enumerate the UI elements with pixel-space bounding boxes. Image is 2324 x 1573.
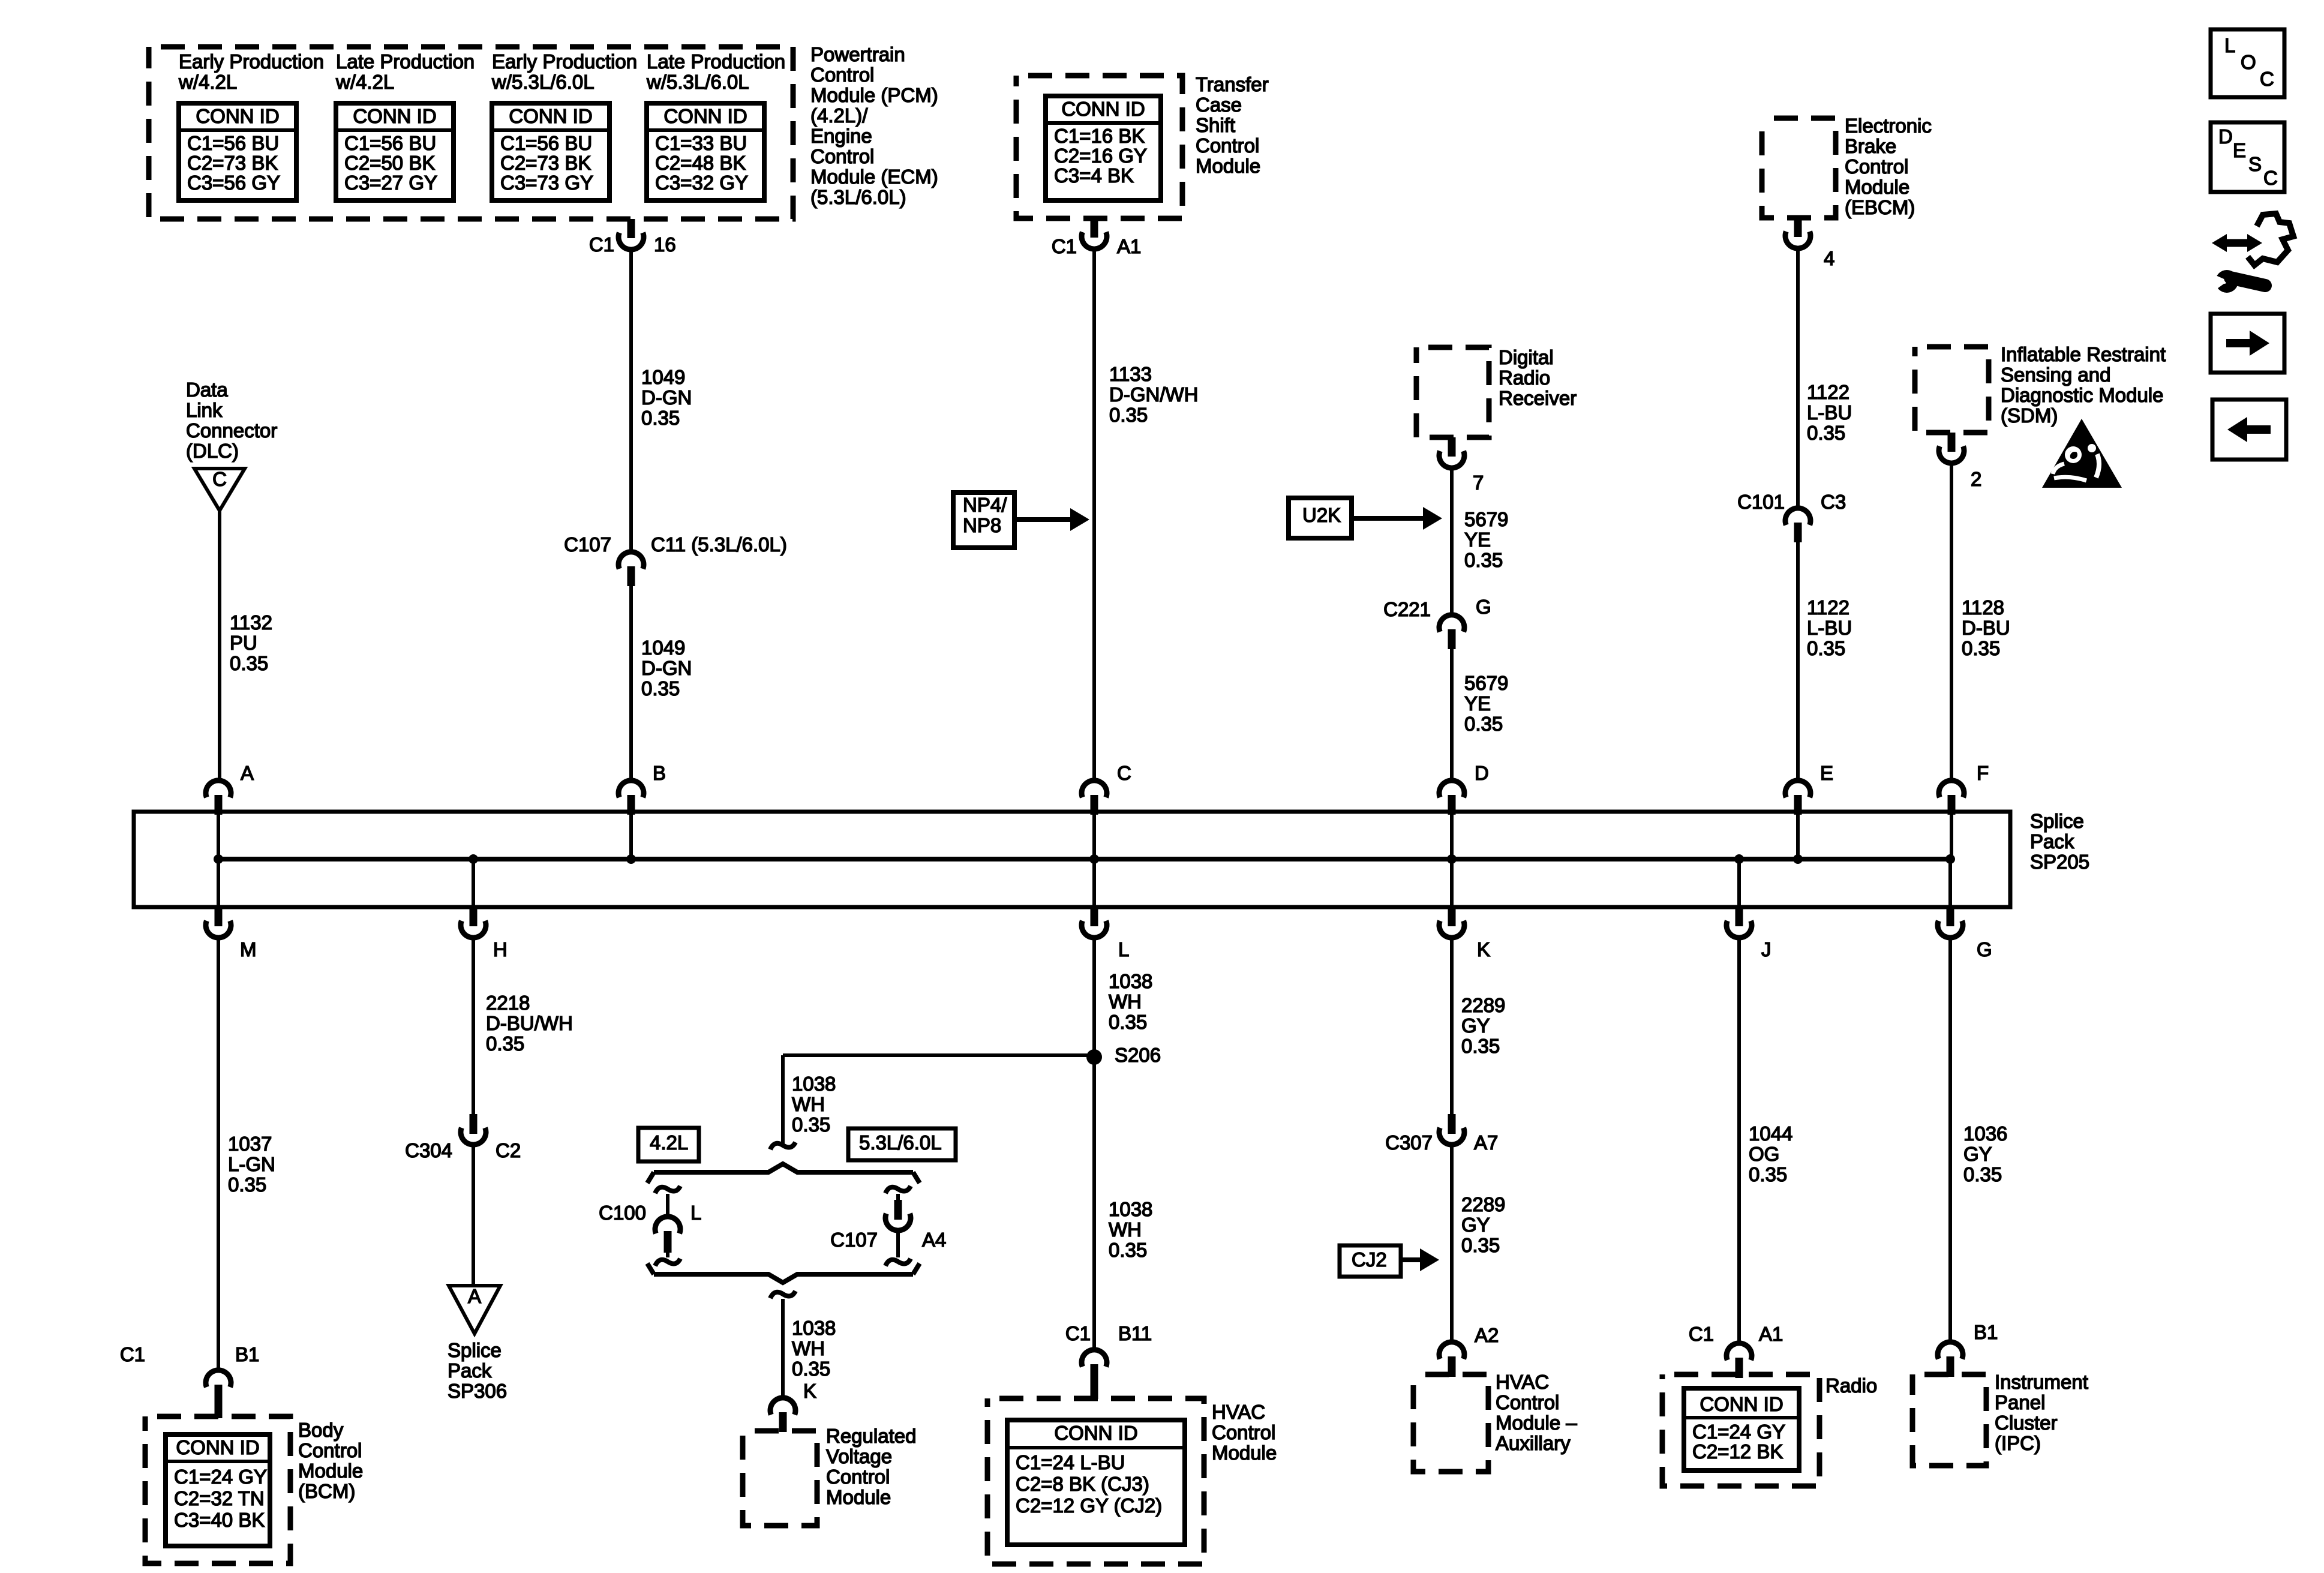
svg-text:D: D <box>1475 762 1489 784</box>
svg-text:WH: WH <box>1109 990 1142 1013</box>
splice connector H (to SP306) <box>472 859 475 907</box>
svg-text:C2=73 BK: C2=73 BK <box>187 152 278 174</box>
wire 1049 D-GN 0.35 (PCM C1-16 to C107) <box>629 250 633 552</box>
svg-text:0.35: 0.35 <box>1464 549 1503 571</box>
svg-text:Late Production: Late Production <box>336 50 475 73</box>
svg-text:CONN ID: CONN ID <box>176 1436 259 1458</box>
wire 1122 L-BU 0.35 (C101 to splice E) <box>1796 542 1800 779</box>
svg-text:Auxillary: Auxillary <box>1496 1432 1571 1454</box>
svg-text:S206: S206 <box>1115 1044 1161 1066</box>
svg-text:Control: Control <box>1845 155 1908 178</box>
svg-text:0.35: 0.35 <box>1109 1011 1147 1033</box>
connector pin A2 at HVAC aux <box>1439 1342 1464 1359</box>
svg-text:0.35: 0.35 <box>1464 713 1503 735</box>
svg-text:Control: Control <box>1496 1391 1559 1413</box>
svg-text:C3: C3 <box>1821 491 1846 513</box>
svg-text:Diagnostic Module: Diagnostic Module <box>2001 384 2163 406</box>
svg-text:A1: A1 <box>1117 235 1141 257</box>
wire 1128 D-BU 0.35 (SDM to splice F) <box>1950 463 1953 779</box>
inline connector C221 / pin G <box>1439 615 1464 632</box>
svg-text:Late Production: Late Production <box>647 50 785 73</box>
svg-text:C101: C101 <box>1737 491 1785 513</box>
svg-text:C304: C304 <box>405 1139 452 1161</box>
svg-text:O: O <box>2241 51 2256 73</box>
svg-text:L-GN: L-GN <box>228 1153 275 1175</box>
svg-text:A: A <box>468 1285 481 1307</box>
option box CJ2 with arrow <box>1340 1245 1401 1277</box>
splice connector D (from DRR) <box>1439 781 1464 797</box>
svg-text:Transfer: Transfer <box>1196 73 1269 95</box>
svg-text:CONN ID: CONN ID <box>1054 1422 1137 1444</box>
svg-text:Module: Module <box>1212 1442 1277 1464</box>
branch connector C107 pin A4 (5.3L/6.0L) <box>885 1186 911 1193</box>
svg-text:1036: 1036 <box>1963 1122 2007 1145</box>
svg-text:(4.2L)/: (4.2L)/ <box>810 104 868 127</box>
svg-text:A7: A7 <box>1474 1131 1498 1154</box>
svg-text:CONN ID: CONN ID <box>353 105 436 127</box>
svg-text:Voltage: Voltage <box>826 1445 892 1467</box>
svg-text:Engine: Engine <box>810 125 872 147</box>
svg-text:0.35: 0.35 <box>486 1032 524 1055</box>
junction node D on bus <box>1447 854 1457 864</box>
legend diagnostic icon (arrow, harness, wrench) <box>2212 214 2293 293</box>
svg-text:HVAC: HVAC <box>1496 1371 1549 1393</box>
svg-text:5679: 5679 <box>1464 672 1508 694</box>
connector pin B1 at IPC <box>1938 1342 1963 1359</box>
wire 5679 YE 0.35 (DRR to C221) <box>1450 468 1454 615</box>
svg-text:L: L <box>690 1202 701 1224</box>
svg-text:Sensing and: Sensing and <box>2001 364 2110 386</box>
Body Control Module dashed box <box>145 1416 290 1563</box>
svg-text:D: D <box>2218 125 2233 148</box>
svg-text:C3=40 BK: C3=40 BK <box>174 1509 265 1531</box>
svg-text:YE: YE <box>1464 529 1491 551</box>
svg-text:2289: 2289 <box>1461 994 1505 1016</box>
svg-text:0.35: 0.35 <box>1962 637 2000 659</box>
svg-text:2: 2 <box>1971 468 1981 490</box>
svg-text:5.3L/6.0L: 5.3L/6.0L <box>859 1131 942 1154</box>
svg-text:1038: 1038 <box>1109 970 1152 992</box>
svg-text:C3=56 GY: C3=56 GY <box>187 172 280 194</box>
svg-text:0.35: 0.35 <box>641 407 680 429</box>
splice connector A (from DLC) <box>206 781 231 797</box>
svg-text:Electronic: Electronic <box>1845 115 1932 137</box>
legend box DESC <box>2211 122 2284 192</box>
HVAC connector table C1=24 L-BU / C2=8 BK (CJ3) / C2=12 GY (CJ2) <box>1007 1420 1185 1545</box>
svg-text:Module: Module <box>1845 176 1909 198</box>
svg-text:A1: A1 <box>1759 1323 1783 1345</box>
svg-text:L-BU: L-BU <box>1807 401 1852 424</box>
svg-text:Case: Case <box>1196 94 1242 116</box>
svg-text:NP4/: NP4/ <box>963 494 1007 516</box>
svg-text:C2=73 BK: C2=73 BK <box>500 152 591 174</box>
svg-text:C1=24 GY: C1=24 GY <box>174 1466 267 1488</box>
svg-text:C: C <box>2263 167 2278 189</box>
svg-text:Control: Control <box>1212 1421 1275 1443</box>
wire 1037 L-GN 0.35 (splice M to BCM) <box>217 938 220 1370</box>
svg-text:C1=56 BU: C1=56 BU <box>344 132 436 154</box>
svg-text:SP205: SP205 <box>2030 851 2089 873</box>
svg-text:Radio: Radio <box>1825 1374 1877 1397</box>
svg-text:C1=56 BU: C1=56 BU <box>500 132 592 154</box>
svg-text:Link: Link <box>186 399 223 421</box>
splice connector B (from PCM) <box>618 781 644 797</box>
svg-text:S: S <box>2248 153 2262 175</box>
svg-text:C1: C1 <box>1052 235 1077 257</box>
svg-text:4: 4 <box>1824 247 1834 269</box>
svg-text:Control: Control <box>298 1439 362 1461</box>
svg-text:Connector: Connector <box>186 419 277 442</box>
Radio dashed box <box>1662 1374 1819 1486</box>
svg-text:M: M <box>240 938 257 960</box>
svg-text:GY: GY <box>1963 1143 1992 1165</box>
svg-text:5679: 5679 <box>1464 508 1508 530</box>
wire 1036 GY 0.35 (splice G to IPC) <box>1948 938 1952 1342</box>
splice connector G (to IPC) <box>1948 859 1952 907</box>
Transfer Case Shift Control Module dashed box <box>1016 76 1182 218</box>
svg-text:0.35: 0.35 <box>641 677 680 700</box>
svg-text:GY: GY <box>1461 1214 1490 1236</box>
svg-text:C11 (5.3L/6.0L): C11 (5.3L/6.0L) <box>651 533 787 556</box>
connector C1 pin B1 at BCM <box>206 1370 231 1387</box>
svg-text:CJ2: CJ2 <box>1352 1248 1387 1271</box>
svg-text:C1: C1 <box>120 1343 145 1365</box>
connector C1 pin A1 at TCSCM <box>1091 218 1098 238</box>
svg-text:L: L <box>2224 34 2235 56</box>
svg-text:Powertrain: Powertrain <box>810 43 905 65</box>
splice pack SP306 triangle A <box>449 1286 500 1334</box>
wire break hook above option brace <box>770 1142 795 1149</box>
svg-text:A: A <box>241 762 254 784</box>
PCM connector table C1=33 BU / C2=48 BK / C3=32 GY <box>647 103 764 200</box>
svg-text:Body: Body <box>298 1419 344 1441</box>
svg-text:C2: C2 <box>496 1139 521 1161</box>
svg-text:SP306: SP306 <box>448 1380 507 1402</box>
wire 1038 WH 0.35 branch (S206 to option braces) <box>783 1053 1096 1057</box>
svg-text:E: E <box>2233 139 2246 161</box>
svg-text:B: B <box>653 762 666 784</box>
svg-text:E: E <box>1820 762 1833 784</box>
svg-text:Panel: Panel <box>1995 1391 2045 1413</box>
connector C1 pin A1 at Radio <box>1727 1343 1752 1360</box>
svg-text:(EBCM): (EBCM) <box>1845 196 1915 218</box>
svg-text:GY: GY <box>1461 1014 1490 1037</box>
svg-text:(IPC): (IPC) <box>1995 1432 2041 1454</box>
svg-text:1044: 1044 <box>1749 1122 1792 1145</box>
wire 2289 GY 0.35 (C307 to HVAC aux A2) <box>1450 1145 1454 1342</box>
svg-text:Splice: Splice <box>2030 810 2084 832</box>
junction node C on bus <box>1089 854 1099 864</box>
svg-text:Control: Control <box>1196 134 1259 157</box>
svg-text:2218: 2218 <box>486 992 530 1014</box>
svg-text:L: L <box>1118 938 1129 960</box>
splice connector L (to HVAC) <box>1092 859 1096 907</box>
svg-text:CONN ID: CONN ID <box>1061 98 1145 120</box>
svg-text:1122: 1122 <box>1807 381 1849 403</box>
PCM connector table C1=56 BU / C2=73 BK / C3=73 GY <box>492 103 609 200</box>
svg-text:1132: 1132 <box>230 611 272 634</box>
PCM connector table C1=56 BU / C2=50 BK / C3=27 GY <box>336 103 454 200</box>
svg-text:Control: Control <box>810 145 874 167</box>
splice connector C (from TCSCM) <box>1082 781 1107 797</box>
splice S206 <box>1086 1049 1102 1065</box>
junction node B on bus <box>626 854 636 864</box>
connector pin 2 at SDM <box>1948 433 1956 452</box>
svg-text:C3=27 GY: C3=27 GY <box>344 172 437 194</box>
svg-text:0.35: 0.35 <box>1807 637 1845 659</box>
svg-text:C2=50 BK: C2=50 BK <box>344 152 435 174</box>
svg-text:Radio: Radio <box>1499 367 1550 389</box>
svg-text:C1=24 GY: C1=24 GY <box>1692 1421 1785 1443</box>
svg-text:C2=48 BK: C2=48 BK <box>655 152 746 174</box>
svg-text:PU: PU <box>230 632 257 654</box>
svg-text:Data: Data <box>186 379 228 401</box>
svg-text:Module: Module <box>298 1460 363 1482</box>
svg-text:1049: 1049 <box>641 637 685 659</box>
connector pin 4 at EBCM <box>1794 218 1802 237</box>
svg-text:C1: C1 <box>589 233 614 256</box>
svg-text:1133: 1133 <box>1109 363 1152 385</box>
wire 1133 D-GN/WH 0.35 (TCSCM to splice C) <box>1092 249 1096 779</box>
svg-text:C307: C307 <box>1385 1131 1433 1154</box>
svg-text:H: H <box>493 938 508 960</box>
svg-text:C2=12 BK: C2=12 BK <box>1692 1440 1783 1463</box>
Electronic Brake Control Module dashed box <box>1762 118 1836 218</box>
svg-text:(DLC): (DLC) <box>186 440 239 462</box>
svg-text:D-GN: D-GN <box>641 657 692 679</box>
svg-text:1038: 1038 <box>792 1073 836 1095</box>
svg-text:Shift: Shift <box>1196 114 1235 136</box>
wire 1038 WH 0.35 (splice L to S206) <box>1092 938 1096 1350</box>
svg-text:w/4.2L: w/4.2L <box>335 71 394 93</box>
svg-text:CONN ID: CONN ID <box>196 105 279 127</box>
svg-text:CONN ID: CONN ID <box>1700 1393 1783 1415</box>
TCSCM connector table C1=16 BK / C2=16 GY / C3=4 BK <box>1046 96 1161 200</box>
svg-text:C1=56 BU: C1=56 BU <box>187 132 279 154</box>
svg-text:0.35: 0.35 <box>1461 1234 1500 1256</box>
wire 5679 YE 0.35 (C221 to splice D) <box>1450 649 1454 779</box>
inline connector C307 / pin A7 <box>1448 1114 1456 1134</box>
svg-text:Brake: Brake <box>1845 135 1896 157</box>
splice connector J (to Radio) <box>1737 859 1741 907</box>
svg-text:Pack: Pack <box>448 1359 492 1382</box>
splice connector E (from EBCM) <box>1785 781 1810 797</box>
wire 2218 D-BU/WH 0.35 (splice H to C304) <box>472 938 475 1114</box>
wire 1132 PU 0.35 (DLC to splice A) <box>218 511 221 781</box>
svg-text:0.35: 0.35 <box>792 1358 830 1380</box>
DLC off-page triangle C <box>194 469 245 511</box>
svg-text:Module (ECM): Module (ECM) <box>810 166 938 188</box>
HVAC Control Module - Auxillary dashed box <box>1413 1374 1488 1472</box>
junction node E on bus <box>1793 854 1803 864</box>
inline connector C101 / pin C3 <box>1785 508 1810 525</box>
Instrument Panel Cluster dashed box <box>1912 1374 1986 1466</box>
svg-text:C1: C1 <box>1689 1323 1714 1345</box>
svg-text:w/5.3L/6.0L: w/5.3L/6.0L <box>646 71 749 93</box>
svg-text:K: K <box>1477 938 1490 960</box>
wire (C304 to splice pack SP306) <box>472 1145 475 1286</box>
svg-text:Receiver: Receiver <box>1499 387 1577 409</box>
connector pin K at RVCM <box>770 1398 795 1415</box>
svg-text:C2=16 GY: C2=16 GY <box>1054 145 1147 167</box>
svg-text:16: 16 <box>654 233 676 256</box>
svg-text:4.2L: 4.2L <box>650 1131 688 1154</box>
svg-text:A2: A2 <box>1475 1324 1499 1346</box>
svg-text:Regulated: Regulated <box>826 1425 916 1447</box>
svg-text:1122: 1122 <box>1807 596 1849 619</box>
engine option box 4.2L <box>638 1128 699 1161</box>
svg-text:WH: WH <box>792 1093 825 1115</box>
option brace top <box>647 1164 920 1183</box>
svg-text:CONN ID: CONN ID <box>509 105 592 127</box>
wire 2289 GY 0.35 (splice K to C307) <box>1450 938 1454 1114</box>
connector pin 7 at Digital Radio Receiver <box>1448 437 1456 457</box>
svg-text:B1: B1 <box>1974 1321 1998 1343</box>
svg-text:1038: 1038 <box>792 1317 836 1339</box>
svg-text:D-GN/WH: D-GN/WH <box>1109 383 1198 406</box>
svg-text:2289: 2289 <box>1461 1193 1505 1215</box>
connector C1 pin 16 at PCM <box>627 219 635 238</box>
svg-text:C1=33 BU: C1=33 BU <box>655 132 747 154</box>
Digital Radio Receiver dashed box <box>1416 347 1489 437</box>
svg-text:0.35: 0.35 <box>1109 1239 1147 1261</box>
svg-text:(SDM): (SDM) <box>2001 404 2058 427</box>
svg-text:Early Production: Early Production <box>492 50 637 73</box>
svg-text:Module: Module <box>826 1486 891 1508</box>
junction node F/G on bus <box>1945 854 1955 864</box>
svg-text:C: C <box>1117 762 1131 784</box>
BCM connector table C1=24 GY / C2=32 TN / C3=40 BK <box>166 1434 270 1546</box>
svg-text:C1=16 BK: C1=16 BK <box>1054 125 1145 147</box>
svg-text:WH: WH <box>1109 1218 1142 1241</box>
svg-text:C: C <box>212 468 227 490</box>
svg-text:C221: C221 <box>1383 598 1431 620</box>
svg-text:7: 7 <box>1473 472 1484 494</box>
wire 1038 WH 0.35 (brace to RVCM pin K) <box>781 1299 785 1398</box>
svg-text:Splice: Splice <box>448 1339 502 1361</box>
svg-text:B11: B11 <box>1118 1322 1152 1344</box>
svg-text:D-BU: D-BU <box>1962 617 2010 639</box>
svg-text:1037: 1037 <box>228 1133 272 1155</box>
svg-text:B1: B1 <box>235 1343 259 1365</box>
engine option box 5.3L/6.0L <box>848 1128 956 1160</box>
wire 1044 OG 0.35 (splice J to Radio) <box>1737 938 1741 1343</box>
svg-text:HVAC: HVAC <box>1212 1401 1265 1423</box>
svg-text:(BCM): (BCM) <box>298 1480 355 1502</box>
svg-text:1128: 1128 <box>1962 596 2004 619</box>
svg-text:K: K <box>803 1380 816 1402</box>
svg-text:C100: C100 <box>599 1202 646 1224</box>
svg-text:Module (PCM): Module (PCM) <box>810 84 938 106</box>
option brace bottom <box>647 1263 920 1283</box>
svg-text:C2=32 TN: C2=32 TN <box>174 1487 265 1509</box>
legend box left arrow <box>2212 400 2286 460</box>
Radio connector table C1=24 GY / C2=12 BK <box>1684 1388 1799 1470</box>
svg-text:L-BU: L-BU <box>1807 617 1852 639</box>
Regulated Voltage Control Module dashed box <box>743 1431 817 1526</box>
svg-text:0.35: 0.35 <box>1109 404 1148 426</box>
legend box LOC <box>2211 29 2284 97</box>
svg-text:WH: WH <box>792 1337 825 1359</box>
svg-text:C1: C1 <box>1065 1322 1091 1344</box>
svg-text:C: C <box>2260 68 2274 90</box>
svg-text:G: G <box>1977 938 1992 960</box>
svg-text:(5.3L/6.0L): (5.3L/6.0L) <box>810 186 906 208</box>
splice pack internal bus wire <box>218 857 1950 861</box>
option box U2K with arrow <box>1289 498 1352 538</box>
svg-text:Early Production: Early Production <box>179 50 324 73</box>
inline connector C107 / C11 (5.3L/6.0L) <box>618 552 644 569</box>
svg-text:w/5.3L/6.0L: w/5.3L/6.0L <box>491 71 594 93</box>
svg-text:C3=73 GY: C3=73 GY <box>500 172 593 194</box>
svg-text:C1=24 L-BU: C1=24 L-BU <box>1016 1451 1125 1473</box>
splice pack SP205 box <box>134 812 2010 907</box>
wire break hook below option brace <box>770 1291 795 1298</box>
svg-text:C3=32 GY: C3=32 GY <box>655 172 748 194</box>
svg-text:CONN ID: CONN ID <box>663 105 747 127</box>
connector C1 pin B11 at HVAC <box>1082 1350 1107 1367</box>
svg-text:YE: YE <box>1464 692 1491 715</box>
svg-text:Digital: Digital <box>1499 346 1554 368</box>
svg-text:G: G <box>1476 596 1491 618</box>
svg-text:0.35: 0.35 <box>1461 1035 1500 1057</box>
svg-text:D-GN: D-GN <box>641 386 692 409</box>
svg-text:0.35: 0.35 <box>230 652 268 674</box>
svg-text:w/4.2L: w/4.2L <box>178 71 237 93</box>
svg-text:J: J <box>1761 938 1771 960</box>
svg-text:Control: Control <box>826 1466 890 1488</box>
svg-text:C107: C107 <box>830 1229 878 1251</box>
svg-text:C2=8 BK (CJ3): C2=8 BK (CJ3) <box>1016 1473 1149 1495</box>
branch connector C100 pin L (4.2L) <box>655 1186 680 1193</box>
svg-text:C3=4 BK: C3=4 BK <box>1054 164 1134 187</box>
svg-text:1038: 1038 <box>1109 1198 1152 1220</box>
svg-text:1049: 1049 <box>641 366 685 388</box>
wire 1122 L-BU 0.35 (EBCM to C101) <box>1796 248 1800 508</box>
svg-text:A4: A4 <box>922 1229 946 1251</box>
svg-text:OG: OG <box>1749 1143 1779 1165</box>
legend box right arrow <box>2211 314 2284 373</box>
svg-text:Module –: Module – <box>1496 1412 1577 1434</box>
svg-text:D-BU/WH: D-BU/WH <box>486 1012 573 1034</box>
svg-text:Module: Module <box>1196 155 1260 177</box>
junction node A on bus <box>214 854 223 864</box>
wire 1049 D-GN 0.35 (C107 to splice B) <box>629 586 633 779</box>
SRS airbag warning triangle icon <box>2042 419 2122 488</box>
svg-text:0.35: 0.35 <box>792 1113 830 1136</box>
svg-text:F: F <box>1977 762 1989 784</box>
svg-text:Inflatable Restraint: Inflatable Restraint <box>2001 343 2166 365</box>
svg-text:C107: C107 <box>564 533 611 556</box>
HVAC Control Module dashed box <box>987 1398 1204 1564</box>
option box NP4/NP8 with arrow <box>953 493 1014 548</box>
svg-text:U2K: U2K <box>1302 504 1341 526</box>
svg-text:Cluster: Cluster <box>1995 1412 2058 1434</box>
svg-text:0.35: 0.35 <box>1807 422 1845 444</box>
svg-text:0.35: 0.35 <box>228 1173 266 1196</box>
splice connector K (to HVAC aux) <box>1450 859 1454 907</box>
svg-text:0.35: 0.35 <box>1749 1163 1787 1185</box>
svg-text:NP8: NP8 <box>963 514 1001 536</box>
svg-text:C2=12 GY (CJ2): C2=12 GY (CJ2) <box>1016 1494 1162 1517</box>
svg-text:Pack: Pack <box>2030 830 2074 852</box>
Powertrain/Engine Control Module (PCM/ECM) dashed box <box>149 47 793 219</box>
svg-text:Control: Control <box>810 64 874 86</box>
splice connector M (to BCM) <box>217 859 220 907</box>
splice connector F (from SDM) <box>1939 781 1964 797</box>
svg-text:Instrument: Instrument <box>1995 1371 2088 1393</box>
inline connector C304 / pin C2 <box>470 1114 478 1134</box>
